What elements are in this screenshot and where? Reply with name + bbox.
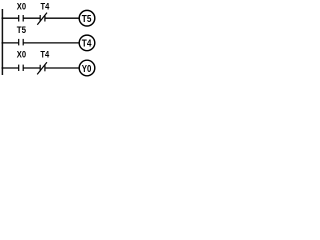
wire rung3 rail to X0 [2,67,19,69]
svg-text:T5: T5 [17,25,26,35]
wire rung1 X0 to T4 [23,17,40,19]
label X0 rung1 [17,2,26,12]
wire rung1 T4 to coil T5 [45,17,80,19]
svg-text:X0: X0 [17,49,26,59]
svg-text:Y0: Y0 [82,64,92,75]
coil T4 rung2 [79,35,95,51]
svg-text:T4: T4 [40,49,50,59]
wire rung1 rail to X0 [2,17,19,19]
coil Y0 rung3 [79,60,95,76]
wire rung3 T4 to coil Y0 [45,67,80,69]
label T4 rung3 [40,49,50,59]
label T4 rung1 [41,2,51,12]
coil T5 rung1 [79,10,95,26]
wire rung2 rail to T5 [2,42,19,44]
svg-text:T5: T5 [82,14,92,25]
svg-text:T4: T4 [41,2,51,12]
svg-text:X0: X0 [17,2,26,12]
contact X0 (NO) rung3 [19,65,24,71]
wire rung2 T5 to coil T4 [23,42,79,44]
svg-text:T4: T4 [82,39,92,50]
contact T5 (NO) rung2 [19,39,24,46]
label X0 rung3 [17,49,26,59]
wire rung3 X0 to T4 [23,67,40,69]
label T5 rung2 [17,25,26,35]
contact T4 (NC) rung3 [37,62,47,74]
left power rail [1,9,3,75]
contact X0 (NO) rung1 [19,15,24,22]
contact T4 (NC) rung1 [37,13,47,25]
